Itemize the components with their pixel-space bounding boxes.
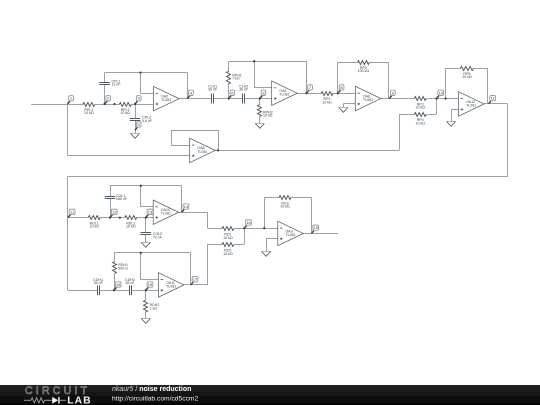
svg-text:10 kΩ: 10 kΩ (322, 100, 332, 104)
svg-text:10 kΩ: 10 kΩ (120, 111, 130, 115)
svg-text:LAB: LAB (67, 396, 91, 405)
svg-text:TL081: TL081 (161, 98, 171, 102)
svg-text:TL081: TL081 (363, 98, 373, 102)
svg-text:TL081: TL081 (466, 103, 476, 107)
svg-text:16: 16 (246, 220, 251, 225)
svg-text:10 kΩ: 10 kΩ (280, 205, 290, 209)
svg-text:10 kΩ: 10 kΩ (415, 121, 425, 125)
svg-text:17: 17 (193, 277, 198, 282)
svg-text:7 kΩ: 7 kΩ (232, 77, 240, 81)
svg-text:10: 10 (438, 90, 443, 95)
svg-text:nkaur5 / noise reduction: nkaur5 / noise reduction (112, 386, 191, 393)
svg-text:10 kΩ: 10 kΩ (263, 114, 273, 118)
svg-text:36 nF: 36 nF (125, 281, 135, 285)
svg-text:10 kΩ: 10 kΩ (126, 225, 136, 229)
svg-text:10 kΩ: 10 kΩ (84, 111, 94, 115)
svg-text:36 nF: 36 nF (94, 281, 104, 285)
svg-text:500 Ω: 500 Ω (118, 266, 128, 270)
svg-text:11 nF: 11 nF (112, 83, 122, 87)
svg-text:100 kΩ: 100 kΩ (358, 69, 370, 73)
svg-text:10 kΩ: 10 kΩ (415, 106, 425, 110)
svg-text:36 nF: 36 nF (239, 88, 249, 92)
svg-text:10 kΩ: 10 kΩ (223, 236, 233, 240)
svg-text:10 kΩ: 10 kΩ (89, 225, 99, 229)
svg-text:1 kΩ: 1 kΩ (150, 306, 158, 310)
svg-text:70 nF: 70 nF (153, 236, 163, 240)
svg-text:TL081: TL081 (285, 233, 295, 237)
svg-text:TL081: TL081 (197, 150, 207, 154)
svg-text:10 kΩ: 10 kΩ (462, 75, 472, 79)
svg-text:18: 18 (116, 282, 121, 287)
svg-text:19: 19 (148, 282, 153, 287)
svg-text:13: 13 (148, 209, 153, 214)
svg-text:TL081: TL081 (166, 284, 176, 288)
svg-text:TL081: TL081 (279, 93, 289, 97)
svg-text:12: 12 (112, 209, 117, 214)
svg-text:180 nF: 180 nF (116, 197, 128, 201)
svg-text:10 kΩ: 10 kΩ (223, 252, 233, 256)
svg-text:TL081: TL081 (161, 212, 171, 216)
svg-text:15: 15 (313, 225, 318, 230)
svg-text:36 nF: 36 nF (208, 88, 218, 92)
svg-text:http://circuitlab.com/cd5ccm2: http://circuitlab.com/cd5ccm2 (112, 395, 199, 402)
svg-text:5.6 nF: 5.6 nF (142, 119, 153, 123)
svg-text:14: 14 (184, 204, 189, 209)
